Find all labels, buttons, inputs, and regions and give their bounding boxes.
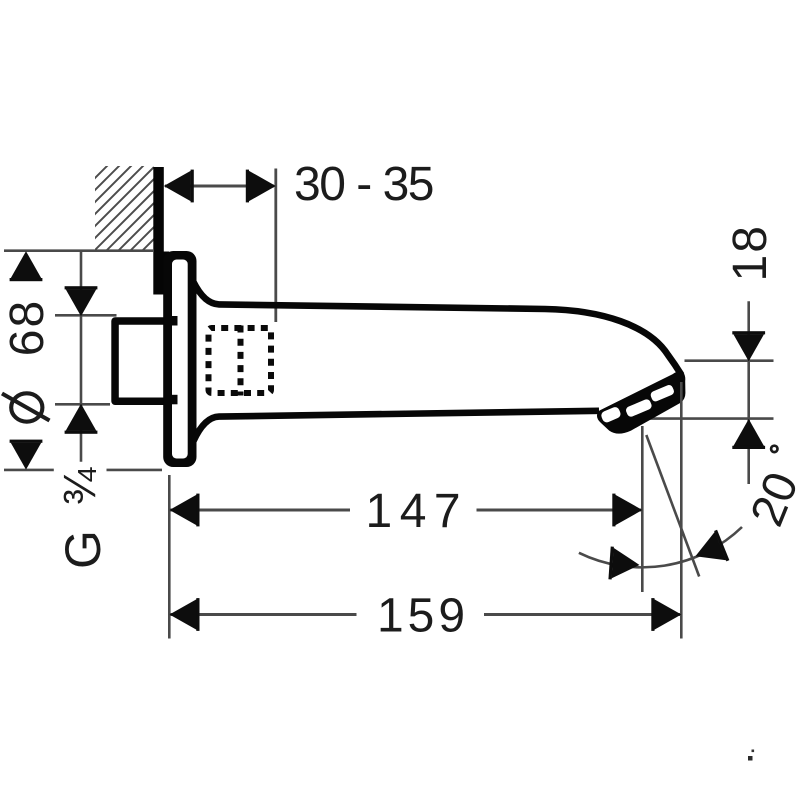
outlet slot left: [600, 406, 622, 424]
outlet slot middle: [625, 398, 653, 418]
dim 159 line: [170, 613, 357, 616]
svg-text:¾: ¾: [55, 466, 106, 505]
dim O68 top arrow: [10, 251, 43, 281]
dim 147 right arrow: [612, 494, 642, 527]
dim 159 left arrow: [170, 598, 200, 631]
angle 20 arc: [579, 527, 742, 567]
dim 147 left extension line: [168, 475, 171, 639]
dim G34 top extension line: [55, 314, 117, 317]
dim 147 right extension line: [641, 426, 644, 592]
dim G34 lower arrow: [65, 404, 98, 434]
wall-flange junction fill: [162, 252, 169, 295]
wall line: [153, 167, 164, 295]
aerator dashed middle line: [238, 326, 244, 396]
dim O68 top extension line: [4, 249, 154, 252]
dim 159 right arrow: [651, 598, 681, 631]
dim 18 lower arrow: [732, 419, 765, 449]
pipe stub upper: [171, 316, 178, 326]
dim 147 line: [170, 509, 350, 512]
dim 147 left arrow: [170, 494, 200, 527]
dim 30-35 left arrow: [164, 170, 194, 203]
dim 18 bottom extension line: [648, 417, 774, 420]
speck 2: [748, 756, 753, 761]
dim 18 upper arrow: [732, 331, 765, 361]
spout body top edge: [194, 282, 682, 375]
dim G34 line: [80, 252, 83, 462]
outlet slot right: [649, 384, 675, 403]
dim 18 line: [747, 301, 750, 484]
dim G34 bottom extension line: [55, 403, 110, 406]
angle 20 slanted line: [646, 435, 699, 577]
dim 30-35 line: [165, 185, 274, 188]
dim O68 bottom extension line: [4, 469, 54, 472]
svg-text:68: 68: [1, 299, 54, 356]
dim 159 right extension line: [680, 382, 683, 639]
dim 18 top extension line: [685, 359, 774, 362]
dim O68 text diameter: [2, 393, 50, 421]
dim 30-35 extension line: [274, 169, 277, 323]
speck 1: [752, 750, 755, 753]
angle 20 degree ring: [771, 446, 777, 452]
spout outlet tip: [597, 371, 685, 433]
dim 30-35 right arrow: [246, 170, 276, 203]
wall hatching: [83, 106, 167, 322]
svg-text:30 - 35: 30 - 35: [294, 158, 433, 211]
angle 20 left arrow: [608, 547, 640, 582]
aerator dashed rect: [209, 328, 272, 393]
dim O68 bottom arrow: [10, 440, 43, 470]
pipe stub lower: [171, 395, 178, 405]
dim G34 upper arrow: [65, 286, 98, 316]
svg-text:G: G: [55, 530, 111, 569]
connector pipe G34: [115, 321, 165, 401]
svg-text:147: 147: [366, 485, 469, 538]
svg-text:159: 159: [377, 590, 469, 643]
angle 20 right arrow: [689, 530, 729, 572]
spout body bottom edge: [194, 411, 600, 441]
flange escutcheon: [163, 251, 196, 467]
svg-text:18: 18: [724, 224, 777, 281]
